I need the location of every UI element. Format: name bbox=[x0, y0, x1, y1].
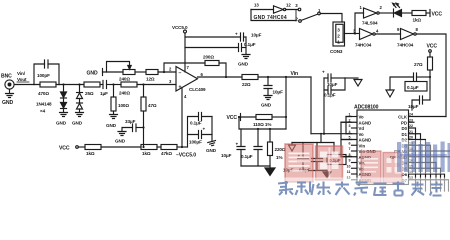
ADC pin 20 (D2) bbox=[402, 136, 426, 191]
svg-text:1kΩ: 1kΩ bbox=[413, 18, 422, 23]
svg-text:7: 7 bbox=[349, 147, 351, 151]
svg-text:GND: GND bbox=[261, 103, 272, 108]
watermark blue bars logo bbox=[397, 141, 450, 172]
svg-text:ADC08100: ADC08100 bbox=[354, 105, 379, 111]
svg-text:+: + bbox=[322, 70, 325, 75]
boxed 0.1uF label (clock) bbox=[405, 82, 427, 92]
capacitor 10uF (bias) bbox=[237, 129, 245, 166]
svg-text:240Ω: 240Ω bbox=[119, 77, 130, 82]
watermark red logo left block A bbox=[285, 144, 313, 182]
resistor 12 ohm bbox=[146, 70, 176, 75]
svg-text:+: + bbox=[179, 85, 182, 91]
switch S1 terminals bbox=[298, 8, 301, 11]
potentiometer 240 ohm bbox=[123, 70, 146, 75]
svg-text:1kΩ: 1kΩ bbox=[86, 151, 95, 156]
watermark red logo right bbox=[361, 151, 402, 183]
svg-text:Vo: Vo bbox=[359, 132, 365, 137]
svg-text:100pF: 100pF bbox=[37, 73, 50, 78]
svg-text:33μF: 33μF bbox=[125, 119, 136, 124]
svg-text:VCC: VCC bbox=[432, 12, 443, 18]
svg-text:10μF: 10μF bbox=[327, 82, 338, 87]
svg-text:4: 4 bbox=[349, 130, 351, 134]
svg-text:200Ω: 200Ω bbox=[203, 55, 214, 60]
svg-text:GND: GND bbox=[206, 148, 217, 153]
svg-text:24: 24 bbox=[409, 113, 413, 117]
node L bbox=[320, 133, 322, 135]
capacitor 0.1uF (VCC5.0 bypass) bbox=[185, 44, 246, 52]
svg-text:D1: D1 bbox=[402, 132, 408, 137]
watermark red logo left block B bbox=[316, 146, 343, 180]
node J bias tap bbox=[285, 76, 287, 78]
ADC pin 24 (CLK) bbox=[398, 113, 446, 120]
ADC pin 5 (AGND) bbox=[341, 136, 371, 143]
BNC connector J1 bbox=[5, 80, 14, 89]
capacitor 0.1uF (bias) bbox=[254, 129, 262, 166]
switch arm bbox=[301, 14, 317, 20]
svg-text:GND: GND bbox=[115, 139, 126, 144]
lower ADC cap cluster rail bbox=[292, 142, 334, 144]
inverter U3A 74LS04 bbox=[364, 8, 394, 18]
svg-text:10μF: 10μF bbox=[273, 90, 284, 95]
svg-text:GND 74HC04: GND 74HC04 bbox=[254, 15, 287, 21]
capacitor 0.1uF (clock) bbox=[390, 73, 430, 90]
svg-text:12Ω: 12Ω bbox=[146, 77, 155, 82]
capacitor 33uF bbox=[122, 124, 144, 132]
VCC5.0 supply node bbox=[184, 30, 187, 33]
svg-text:CON3: CON3 bbox=[330, 49, 343, 54]
ground for bypass caps bbox=[242, 37, 250, 59]
potentiometer wiper loop bbox=[107, 62, 132, 73]
capacitor 0.1uF (-VCC bypass) bbox=[188, 113, 213, 148]
node C bbox=[112, 83, 114, 85]
svg-text:Vin: Vin bbox=[291, 71, 299, 77]
node E feedback junction bbox=[163, 71, 165, 73]
inverter U2F on box bbox=[274, 6, 286, 13]
svg-text:11: 11 bbox=[347, 170, 351, 174]
svg-text:27Ω: 27Ω bbox=[414, 62, 423, 67]
resistor 25 ohm bbox=[84, 82, 100, 87]
ground for -VCC caps bbox=[208, 117, 217, 147]
wire GND to potentiometer bbox=[103, 71, 124, 73]
capacitor 1uF bbox=[100, 81, 114, 89]
svg-text:1μF: 1μF bbox=[100, 91, 108, 96]
svg-text:Vd: Vd bbox=[359, 126, 365, 131]
svg-text:10μF: 10μF bbox=[251, 33, 262, 38]
svg-text:47kΩ: 47kΩ bbox=[161, 151, 172, 156]
VCC terminal (ADC clock) bbox=[427, 44, 438, 50]
svg-text:3: 3 bbox=[337, 28, 340, 33]
diode D2 (1N4148) bbox=[61, 103, 67, 113]
node G pin4 junction bbox=[181, 146, 183, 148]
ADC pin 9 (Vin) bbox=[349, 159, 366, 166]
watermark blue bars underlay bbox=[395, 140, 450, 174]
ground below D2 bbox=[60, 113, 68, 117]
wire VCC5.0 to op-amp pin 7 bbox=[184, 33, 186, 72]
resistor 27 ohm bbox=[428, 52, 433, 100]
svg-text:VCC5.0: VCC5.0 bbox=[172, 25, 188, 30]
LED D5 bbox=[393, 3, 412, 17]
svg-text:10: 10 bbox=[347, 164, 351, 168]
bias rail bbox=[239, 117, 286, 129]
resistor 1k ohm (a) bbox=[85, 145, 141, 150]
svg-text:20: 20 bbox=[409, 136, 413, 140]
ground arrow (ref cluster left) bbox=[289, 145, 296, 151]
svg-text:Vin/: Vin/ bbox=[17, 71, 26, 76]
ADC pin 17 (DR GND) bbox=[390, 153, 450, 160]
svg-text:74LS04: 74LS04 bbox=[362, 21, 378, 26]
capacitor C 100pF feedback loop bbox=[34, 60, 59, 85]
capacitor 10uF shunt bbox=[264, 77, 272, 95]
wire op-amp pin 4 down bbox=[181, 88, 183, 148]
ADC pin 10 (Vo) bbox=[347, 164, 365, 171]
svg-text:220Ω: 220Ω bbox=[275, 147, 286, 152]
wire Vin down to ADC bbox=[310, 77, 312, 134]
svg-text:AGND: AGND bbox=[359, 138, 372, 143]
node B bbox=[78, 83, 80, 85]
svg-text:13: 13 bbox=[254, 3, 259, 8]
svg-text:1%: 1% bbox=[276, 155, 282, 160]
svg-text:GND: GND bbox=[2, 100, 13, 106]
svg-text:100μF: 100μF bbox=[189, 140, 202, 145]
ADC pin 8 (AGND) bbox=[341, 153, 371, 160]
svg-text:6: 6 bbox=[349, 141, 351, 145]
ADC input bypass 0.1uF bbox=[324, 78, 345, 94]
svg-text:Vin: Vin bbox=[359, 143, 366, 148]
node K bbox=[323, 133, 325, 135]
svg-text:10μF: 10μF bbox=[408, 104, 419, 109]
svg-text:74HC04: 74HC04 bbox=[355, 43, 372, 48]
svg-text:Vout: Vout bbox=[17, 77, 27, 82]
ADC pin 12 (AGND) bbox=[347, 176, 372, 183]
resistor 47 ohm bbox=[141, 85, 146, 148]
svg-text:D0: D0 bbox=[402, 126, 408, 131]
svg-text:BNC: BNC bbox=[1, 74, 12, 80]
Vo bus left of ADC bbox=[346, 117, 352, 134]
svg-text:47Ω: 47Ω bbox=[148, 103, 157, 108]
svg-text:AGND: AGND bbox=[359, 120, 372, 125]
boxed 0.1uF label (ref right) bbox=[327, 143, 346, 165]
ADC pin 15 (D5) bbox=[402, 164, 441, 191]
ADC pin 13 (D7) bbox=[402, 176, 449, 191]
resistor 47k ohm bbox=[161, 145, 187, 150]
ground below 10uF shunt bbox=[264, 96, 272, 100]
resistor 470 ohm bbox=[34, 82, 59, 87]
svg-text:Vo: Vo bbox=[359, 115, 365, 120]
svg-text:VCC: VCC bbox=[227, 115, 238, 121]
svg-text:CLK: CLK bbox=[398, 115, 408, 120]
resistor 110 ohm 1% bbox=[241, 115, 287, 120]
ground triangle (ref cluster) bbox=[303, 170, 327, 172]
IC 74HC04 package box bbox=[251, 10, 298, 21]
node A bbox=[62, 83, 64, 85]
wire to clamp diodes bbox=[59, 84, 84, 86]
ADC input bypass 10uF bbox=[324, 74, 345, 82]
capacitor 10uF (VCC5.0 bypass) bbox=[185, 33, 246, 41]
svg-text:0.1μF: 0.1μF bbox=[407, 85, 419, 90]
AGND bus left of ADC bbox=[341, 122, 352, 156]
resistor 220 ohm 1% bbox=[268, 129, 273, 166]
wire Vin row into ADC bbox=[311, 133, 352, 135]
node F rail junction bbox=[142, 146, 144, 148]
ground below 100 ohm bbox=[110, 115, 118, 119]
svg-text:9: 9 bbox=[349, 159, 351, 163]
feedback wire with 200 ohm bbox=[164, 61, 226, 78]
wire up to 74LS04 bbox=[355, 13, 364, 34]
svg-text:21: 21 bbox=[409, 130, 413, 134]
ADC pin 16 (D4) bbox=[402, 159, 437, 191]
ADC pin 23 (PD) bbox=[401, 118, 414, 125]
bias ground rail bbox=[241, 165, 270, 167]
svg-text:GND: GND bbox=[72, 121, 83, 126]
svg-text:GND: GND bbox=[87, 71, 98, 77]
svg-text:5: 5 bbox=[349, 136, 351, 140]
diode D1 (1N4148) bbox=[61, 85, 67, 103]
node H feedback tap bbox=[225, 76, 227, 78]
svg-text:1N4148: 1N4148 bbox=[36, 102, 52, 107]
inverter U2B 74HC04 bbox=[401, 29, 447, 117]
svg-text:22: 22 bbox=[409, 124, 413, 128]
svg-text:3: 3 bbox=[349, 124, 351, 128]
ADC pin 21 (D1) bbox=[402, 130, 421, 191]
ADC pin 18 (DR Vo) bbox=[394, 147, 450, 154]
VCC terminal (bias) bbox=[227, 115, 238, 121]
negative rail VCC terminal bbox=[76, 146, 79, 149]
svg-text:1kΩ: 1kΩ bbox=[142, 151, 151, 156]
svg-text:23: 23 bbox=[409, 118, 413, 122]
output wire pin 6 bbox=[198, 76, 243, 78]
svg-text:0.1μF: 0.1μF bbox=[241, 154, 253, 159]
svg-text:12: 12 bbox=[286, 3, 291, 8]
ground at BNC bbox=[6, 89, 14, 97]
svg-text:GND: GND bbox=[238, 62, 249, 67]
resistor 1k ohm (b) bbox=[141, 145, 161, 150]
svg-text:0.1μF: 0.1μF bbox=[324, 93, 336, 98]
ADC pin 2 (AGND) bbox=[341, 118, 371, 125]
diode D4 (1N4148) bbox=[77, 103, 83, 112]
node D bbox=[142, 83, 144, 85]
svg-text:8: 8 bbox=[349, 153, 351, 157]
ADC pin 22 (D0) bbox=[402, 124, 416, 191]
wire CON3 pin out bbox=[345, 33, 356, 35]
ground arrow (ADC bypass) bbox=[345, 78, 362, 86]
ground triangle (bias) bbox=[265, 168, 275, 176]
svg-text:0.1μF: 0.1μF bbox=[190, 121, 202, 126]
op-amp U1 CLC409 bbox=[176, 67, 198, 92]
ground below D4 bbox=[76, 113, 84, 117]
diode D3 (1N4148) bbox=[77, 85, 83, 104]
ground below 33uF bbox=[118, 132, 126, 136]
GND terminal on inverting input wire bbox=[87, 71, 98, 77]
capacitor 0.1uF (ref) bbox=[312, 143, 323, 171]
connector CON3 bbox=[333, 22, 345, 46]
svg-text:VCC: VCC bbox=[59, 146, 70, 152]
node M bbox=[354, 32, 356, 34]
svg-text:2: 2 bbox=[349, 118, 351, 122]
ADC pin 11 (AGND) bbox=[347, 170, 371, 177]
svg-text:100Ω: 100Ω bbox=[118, 103, 129, 108]
1N4148 x4 value label bbox=[36, 102, 52, 114]
svg-text:+: + bbox=[235, 32, 238, 37]
Vin/Vout label bbox=[17, 71, 27, 82]
svg-text:CLC409: CLC409 bbox=[189, 87, 206, 92]
svg-text:10μF: 10μF bbox=[221, 153, 232, 158]
wire switch to CON3 bbox=[320, 14, 342, 23]
svg-text:+: + bbox=[236, 142, 239, 147]
ADC pin 14 (D6) bbox=[402, 170, 445, 191]
svg-text:240Ω: 240Ω bbox=[119, 91, 130, 96]
svg-text:22Ω: 22Ω bbox=[242, 82, 251, 87]
ADC pin 1 (Vo) bbox=[346, 113, 364, 120]
ADC pin 3 (Vd) bbox=[349, 124, 365, 131]
svg-text:470Ω: 470Ω bbox=[38, 91, 49, 96]
resistor 240 ohm (lower input) bbox=[121, 82, 176, 87]
watermark blue text 射频和天线设计专家 bbox=[278, 181, 443, 196]
inverter U2A 74HC04 bbox=[355, 29, 401, 40]
capacitor 10uF (ref) bbox=[298, 143, 309, 171]
wire bypass to ADC pin row bbox=[323, 90, 325, 134]
capacitor 100uF (-VCC bypass) bbox=[188, 131, 213, 139]
ADC pin 4 (Vo) bbox=[346, 130, 364, 137]
resistor 1k ohm (LED) bbox=[412, 10, 430, 17]
ground arrow (clock) bbox=[386, 90, 394, 97]
svg-text:+: + bbox=[203, 127, 206, 132]
svg-text:1: 1 bbox=[337, 40, 340, 45]
svg-text:−: − bbox=[179, 71, 182, 77]
resistor 100 ohm to ground bbox=[111, 85, 116, 115]
svg-text:–VCC5.0: –VCC5.0 bbox=[176, 153, 196, 159]
wire to noninverting path bbox=[114, 84, 122, 86]
wire BNC to input node bbox=[14, 84, 34, 86]
capacitor 10uF (clock) bbox=[412, 96, 430, 110]
svg-text:1: 1 bbox=[349, 113, 351, 117]
wire bias vertical bbox=[285, 77, 287, 129]
svg-text:×4: ×4 bbox=[40, 109, 46, 114]
wire VCC to R 1k bbox=[78, 146, 85, 148]
svg-text:GND: GND bbox=[106, 123, 117, 128]
ADC pin 6 (Vin) bbox=[349, 141, 366, 148]
resistor 22 ohm bbox=[242, 75, 311, 80]
ADC pin 7 (Vio GND) bbox=[349, 147, 376, 154]
svg-text:GND: GND bbox=[56, 121, 67, 126]
svg-text:74HC04: 74HC04 bbox=[397, 43, 414, 48]
watermark text underlay halo bbox=[274, 178, 450, 197]
wire node L down to lower cluster bbox=[320, 134, 322, 143]
svg-text:2: 2 bbox=[337, 34, 340, 39]
svg-text:PD: PD bbox=[401, 120, 407, 125]
IC U4 ADC08100 bbox=[357, 110, 409, 185]
svg-text:VCC: VCC bbox=[427, 44, 438, 50]
svg-text:25Ω: 25Ω bbox=[85, 91, 94, 96]
svg-text:110Ω 1%: 110Ω 1% bbox=[253, 122, 271, 127]
node I output tap bbox=[267, 76, 269, 78]
ADC pin 19 (D3) bbox=[402, 141, 431, 191]
